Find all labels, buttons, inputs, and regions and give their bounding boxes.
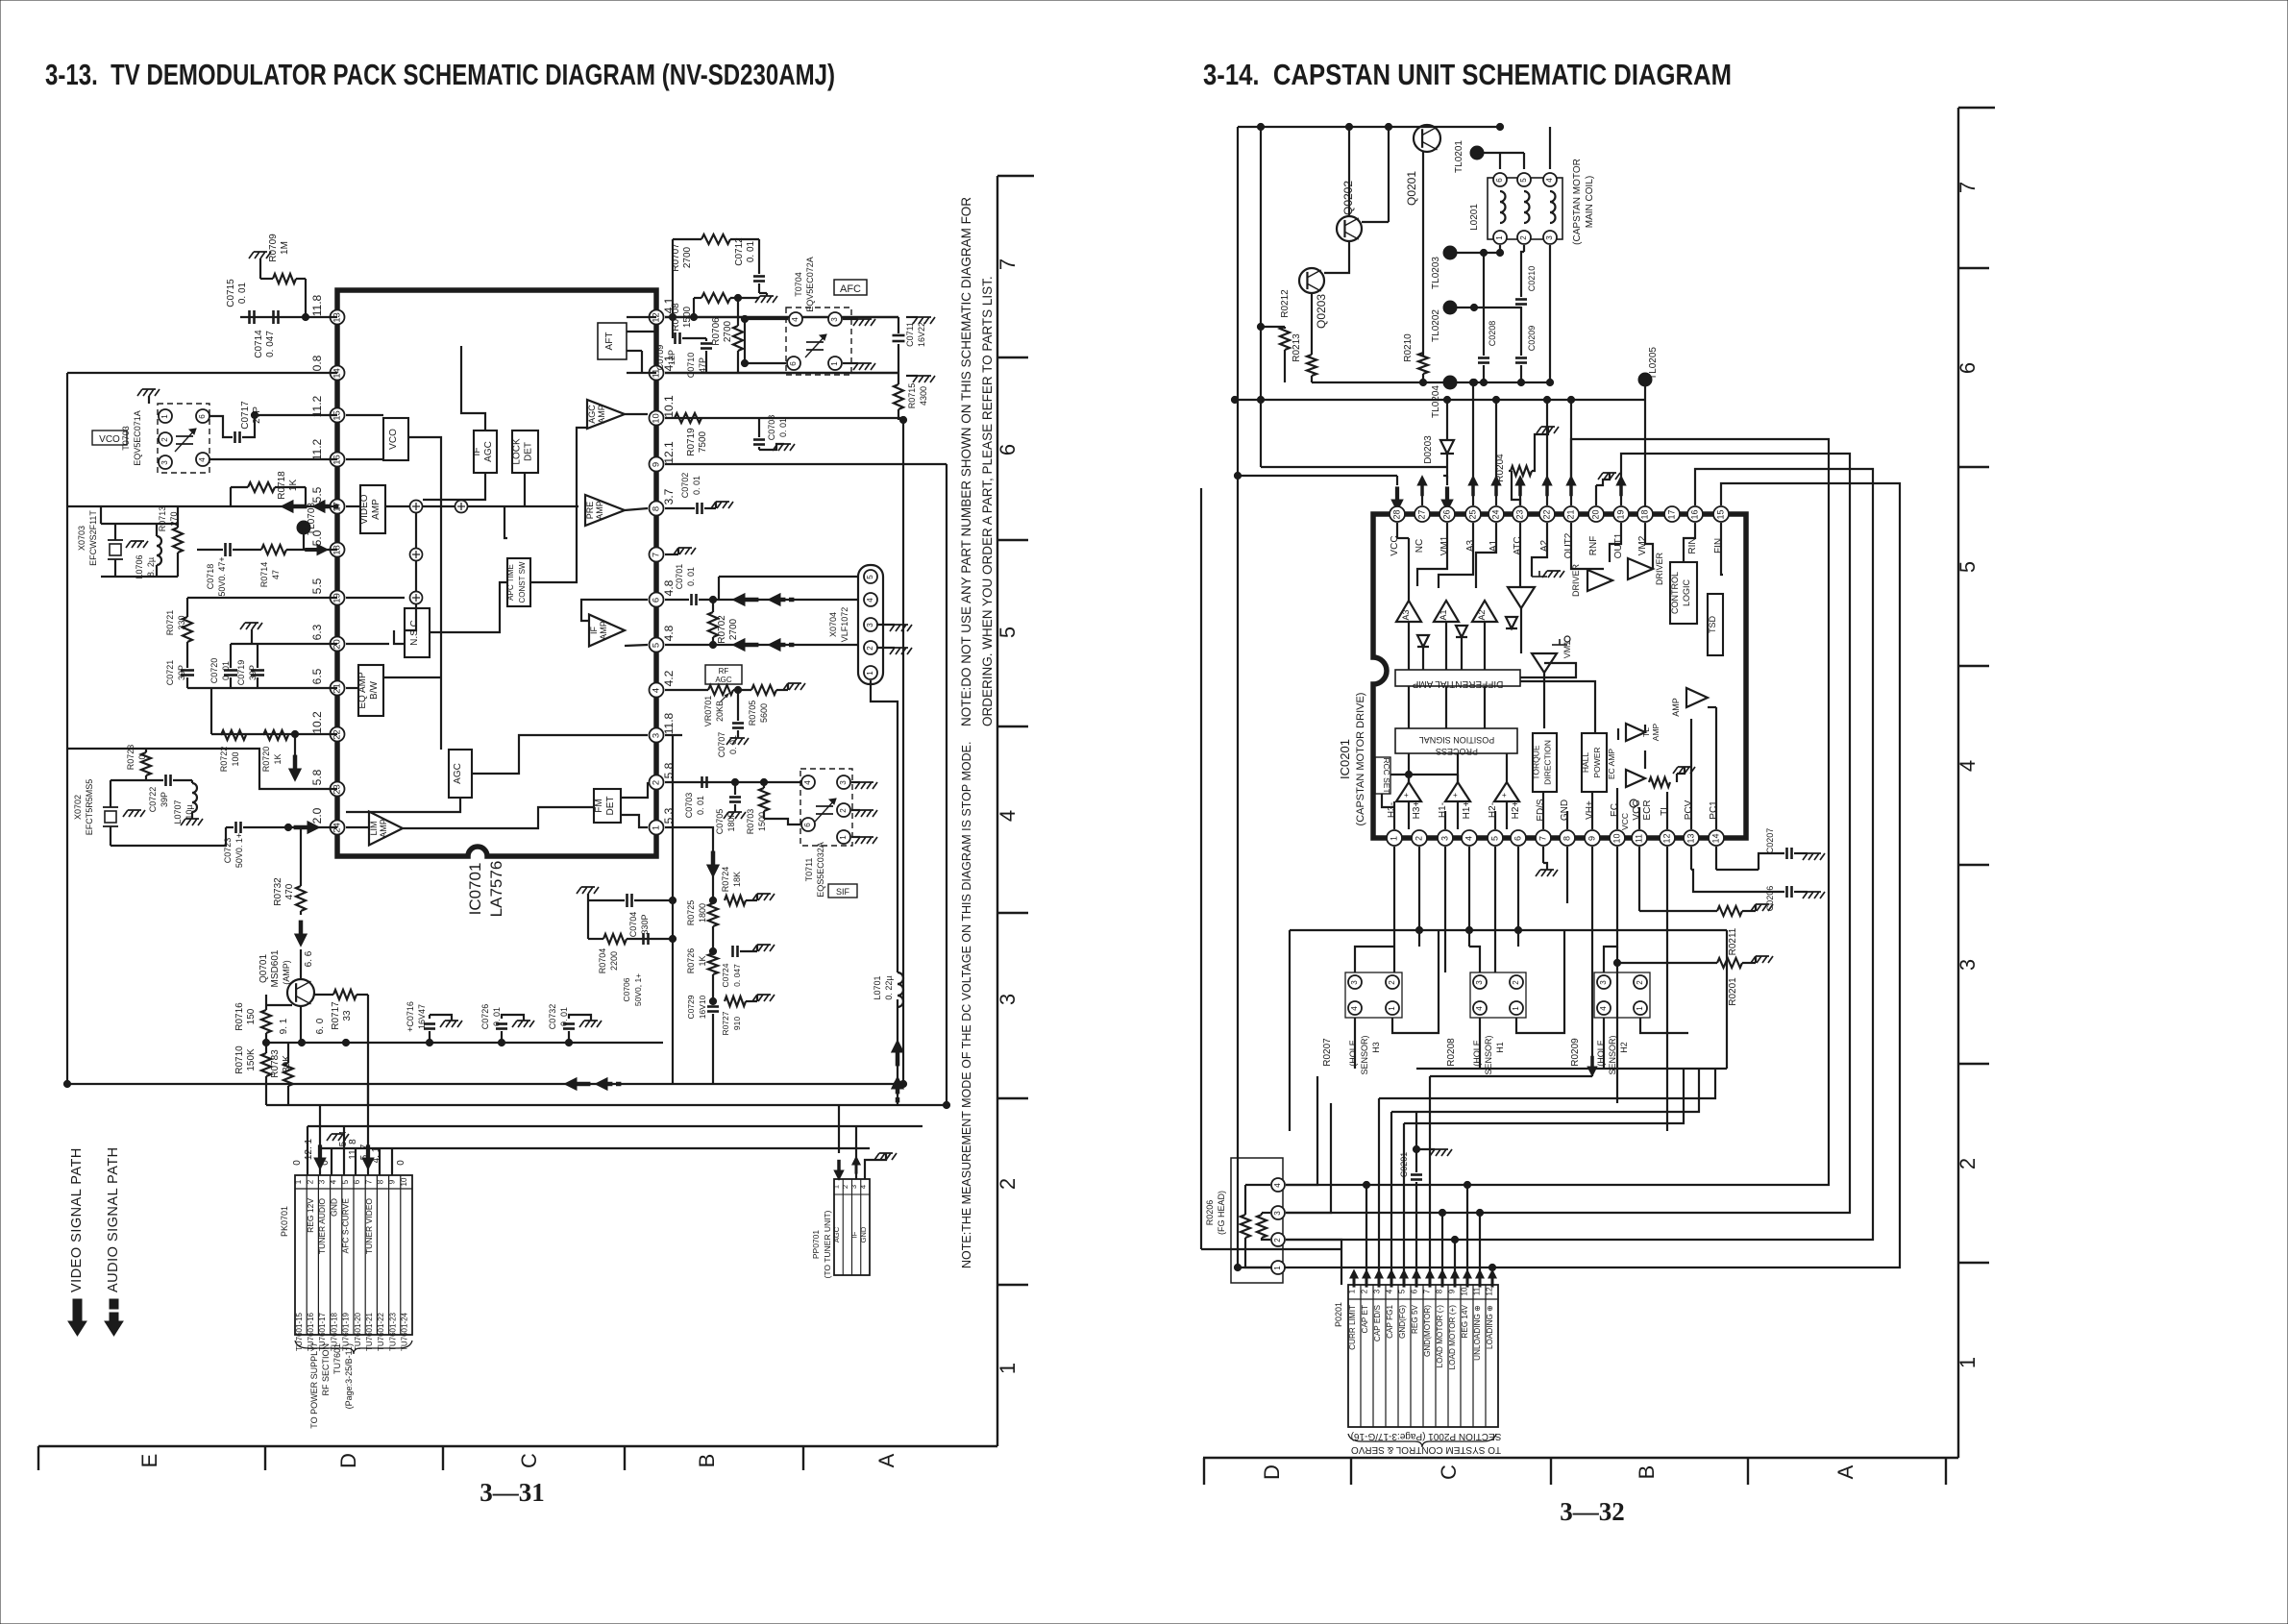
svg-text:4: 4 [1475, 1006, 1484, 1011]
diode internal 1 [1417, 635, 1429, 647]
svg-text:VCO: VCO [99, 434, 120, 445]
diode internal 3 [1506, 617, 1517, 628]
amp PRE AMP [585, 495, 625, 526]
PP0701 wires up [838, 1105, 840, 1153]
svg-text:21: 21 [1565, 509, 1575, 519]
svg-text:2: 2 [160, 437, 169, 442]
arrow into pin18 [317, 544, 328, 554]
resistor R0719 7500 [675, 413, 701, 423]
svg-text:D: D [336, 1453, 360, 1468]
capacitor C0201 [1411, 1173, 1422, 1176]
R0206 wires to right [1286, 1076, 1317, 1185]
svg-text:5: 5 [1489, 836, 1499, 841]
svg-text:+C0716: +C0716 [406, 1001, 415, 1032]
block APC TIME CONST SW [507, 558, 530, 606]
amp AGC AMP [587, 400, 625, 429]
svg-text:RNF: RNF [1588, 536, 1599, 556]
svg-text:4: 4 [803, 780, 812, 785]
svg-text:2: 2 [1512, 980, 1520, 985]
amp IF AMP [589, 615, 625, 647]
ground under L0707 [181, 819, 203, 825]
svg-text:ED/S: ED/S [1536, 799, 1546, 822]
svg-text:2: 2 [652, 780, 662, 785]
amp EC AMP [1626, 770, 1645, 787]
svg-text:DIRECTION: DIRECTION [1543, 740, 1553, 785]
wire pin17 bus [67, 505, 337, 507]
svg-text:R0722: R0722 [219, 747, 229, 773]
svg-text:GND: GND [859, 1226, 868, 1243]
amp A2 internal [1472, 601, 1497, 622]
label SIF boxed [828, 884, 857, 898]
svg-text:R0703: R0703 [746, 809, 755, 835]
svg-text:11.2: 11.2 [310, 395, 324, 417]
X0703 cluster wires [101, 523, 178, 525]
svg-text:4: 4 [996, 810, 1020, 822]
svg-text:7: 7 [364, 1179, 373, 1184]
svg-text:330: 330 [177, 615, 186, 629]
capacitor C0708 0.01 [753, 438, 765, 441]
svg-text:25: 25 [1467, 509, 1477, 519]
svg-text:DRIVER: DRIVER [1655, 553, 1664, 586]
svg-text:R0714: R0714 [259, 562, 269, 588]
svg-text:TL0205: TL0205 [1648, 347, 1659, 380]
svg-text:C0703: C0703 [684, 793, 694, 819]
ground right of X0703 [126, 541, 148, 548]
amp LIM AMP [369, 812, 403, 846]
capacitor C0714 0.047 [272, 310, 275, 324]
svg-text:R0723: R0723 [126, 745, 135, 771]
svg-text:6: 6 [198, 414, 207, 419]
svg-text:1: 1 [652, 825, 662, 830]
svg-text:1: 1 [866, 671, 874, 676]
svg-text:R0208: R0208 [1446, 1038, 1457, 1067]
svg-text:C0705: C0705 [715, 809, 725, 835]
svg-text:R0207: R0207 [1322, 1038, 1333, 1067]
svg-text:2: 2 [841, 1185, 849, 1189]
svg-text:AFC S-CURVE: AFC S-CURVE [341, 1198, 351, 1254]
svg-text:C: C [517, 1453, 541, 1468]
svg-text:REG 5V: REG 5V [1411, 1304, 1419, 1334]
svg-text:AGC: AGC [715, 676, 732, 684]
svg-text:10: 10 [1461, 1287, 1469, 1295]
rail above sensors [1290, 929, 1727, 931]
T0711 pins [801, 775, 815, 789]
T0703 pins [159, 409, 172, 423]
svg-text:C0706: C0706 [622, 977, 631, 1001]
capacitor C0724 0.047 [731, 946, 734, 957]
arrow into connector col2 [314, 1158, 326, 1169]
svg-text:3: 3 [830, 317, 839, 322]
wire pin22 [211, 733, 337, 735]
inductor L0707 10u [192, 783, 197, 812]
svg-text:TORQUE: TORQUE [1532, 745, 1541, 780]
wire pin24 node down [284, 824, 291, 830]
svg-text:28: 28 [1391, 509, 1401, 519]
block EQ AMP BW [358, 665, 383, 716]
block NSC [405, 608, 430, 657]
resistor R0709 1M [273, 274, 296, 283]
svg-text:IC0201: IC0201 [1338, 739, 1352, 779]
wires VCO to pins 15 16 [209, 416, 233, 437]
junction TL0703 [297, 521, 310, 534]
svg-text:C0207: C0207 [1765, 828, 1775, 854]
resistor R0718 1K [248, 482, 275, 492]
PK0701 brace [295, 1341, 412, 1354]
svg-text:LIM: LIM [369, 821, 379, 835]
svg-text:R0726: R0726 [686, 948, 696, 974]
svg-text:1: 1 [1348, 1289, 1357, 1293]
wires pins to top network [1472, 382, 1474, 479]
svg-text:4. 1: 4. 1 [371, 1146, 381, 1163]
svg-text:3: 3 [866, 623, 874, 627]
svg-text:(AMP): (AMP) [282, 960, 291, 985]
resistor R0783 39K [283, 1063, 293, 1086]
svg-text:C0710: C0710 [686, 353, 696, 379]
svg-text:C0720: C0720 [209, 658, 219, 684]
svg-text:6: 6 [803, 823, 812, 827]
wire pin12 right run [665, 316, 898, 319]
svg-text:9: 9 [1587, 836, 1596, 841]
resistor R0703 1500 [759, 788, 769, 811]
svg-text:6.5: 6.5 [310, 668, 324, 684]
svg-text:TL0703: TL0703 [307, 503, 317, 535]
svg-text:VR0701: VR0701 [703, 696, 713, 727]
svg-text:RIN: RIN [1687, 537, 1698, 554]
svg-text:R0706: R0706 [711, 317, 722, 346]
svg-text:R0721: R0721 [165, 610, 175, 636]
svg-text:EFCWS2F11T: EFCWS2F11T [88, 510, 98, 566]
svg-text:VM2: VM2 [1637, 535, 1648, 555]
X0702 wires [111, 779, 163, 781]
svg-text:R0716: R0716 [234, 1002, 245, 1031]
svg-text:CAP ET: CAP ET [1361, 1305, 1369, 1333]
svg-text:8: 8 [377, 1179, 385, 1184]
svg-text:16V22: 16V22 [917, 322, 926, 347]
svg-text:TU7601-20: TU7601-20 [354, 1312, 362, 1351]
svg-text:12.1: 12.1 [662, 441, 676, 464]
svg-text:CONST SW: CONST SW [518, 561, 527, 603]
svg-text:CAP ED/S: CAP ED/S [1373, 1304, 1382, 1341]
label VCO boxed [92, 431, 127, 445]
vertical x700 to bus [672, 735, 674, 1084]
svg-text:4: 4 [1464, 836, 1473, 841]
svg-text:3.7: 3.7 [662, 488, 676, 504]
svg-text:10: 10 [652, 413, 662, 424]
svg-text:6: 6 [1411, 1289, 1419, 1293]
arrow on bus [564, 1078, 577, 1091]
svg-text:TSD: TSD [1708, 615, 1717, 633]
bus junction dots [894, 1080, 900, 1087]
svg-text:2700: 2700 [682, 246, 693, 268]
svg-text:1: 1 [832, 1185, 841, 1189]
svg-text:EC: EC [1610, 803, 1620, 817]
svg-text:0. 01: 0. 01 [778, 418, 788, 437]
svg-text:MAIN COIL): MAIN COIL) [1585, 176, 1595, 228]
svg-text:5. 7: 5. 7 [359, 1144, 370, 1160]
svg-text:OUT2: OUT2 [1563, 532, 1574, 558]
svg-text:SENSOR): SENSOR) [1360, 1035, 1369, 1074]
svg-text:R0717: R0717 [331, 1001, 341, 1030]
grid ruler right (right page) [1957, 108, 1959, 1458]
capacitor C0207 [1785, 848, 1788, 859]
svg-text:H2+: H2+ [1511, 801, 1521, 820]
T0711 varcap [816, 805, 833, 807]
svg-text:C0726: C0726 [480, 1004, 490, 1030]
svg-text:VM1: VM1 [1439, 535, 1450, 555]
svg-text:1K: 1K [273, 753, 283, 764]
svg-text:(CAPSTAN MOTOR DRIVE): (CAPSTAN MOTOR DRIVE) [1355, 693, 1366, 826]
svg-text:TUNER VIDEO: TUNER VIDEO [364, 1198, 374, 1254]
svg-text:2: 2 [839, 808, 848, 813]
svg-text:6: 6 [353, 1179, 361, 1184]
crystal X0703 EFCWS2F11T [108, 539, 123, 541]
arrow down from pin22 node [289, 769, 302, 781]
op-amp IC0701 LA7576 outline [337, 290, 656, 856]
svg-text:(TO TUNER UNIT): (TO TUNER UNIT) [823, 1210, 832, 1278]
svg-text:5: 5 [341, 1179, 350, 1184]
svg-text:H2: H2 [1619, 1042, 1629, 1053]
svg-text:50V0. 47+: 50V0. 47+ [217, 556, 227, 596]
svg-text:0. 01: 0. 01 [692, 476, 701, 495]
X0704 pins [864, 570, 877, 583]
svg-text:39P: 39P [248, 665, 258, 680]
svg-text:VM1: VM1 [1562, 641, 1572, 659]
svg-text:3: 3 [1599, 980, 1608, 985]
svg-text:AMP: AMP [595, 501, 604, 520]
svg-text:2700: 2700 [723, 320, 733, 342]
svg-text:ECR: ECR [1642, 800, 1653, 820]
wire VCC feed [1238, 475, 1397, 477]
wire pin14 long left loop [67, 372, 337, 374]
svg-text:B: B [1635, 1465, 1659, 1480]
mosfet with ground internal [1532, 576, 1547, 578]
svg-text:T0704: T0704 [794, 272, 803, 297]
main rail below Q0701 [266, 1042, 663, 1044]
svg-text:TU7601-23: TU7601-23 [388, 1312, 397, 1351]
svg-text:PC1: PC1 [1709, 800, 1719, 820]
svg-text:TU7601-24: TU7601-24 [401, 1312, 409, 1351]
svg-text:12: 12 [1486, 1287, 1494, 1295]
svg-text:CONTROL: CONTROL [1670, 572, 1680, 614]
svg-text:H3-: H3- [1387, 802, 1397, 818]
svg-text:5: 5 [1519, 178, 1528, 183]
P0201 brace [1348, 1434, 1496, 1447]
svg-text:5.8: 5.8 [310, 769, 324, 785]
svg-text:3: 3 [160, 460, 169, 465]
svg-text:4: 4 [1273, 1183, 1282, 1188]
svg-text:10: 10 [1611, 833, 1621, 843]
svg-text:VCC: VCC [1620, 813, 1630, 830]
svg-text:0: 0 [137, 754, 147, 759]
svg-text:X0702: X0702 [73, 795, 83, 820]
svg-text:4.2: 4.2 [662, 670, 676, 686]
svg-text:GND(MOTOR): GND(MOTOR) [1423, 1305, 1432, 1357]
capacitor C0718 50V0.47 [224, 543, 227, 556]
junction TL0202 [1443, 301, 1457, 314]
svg-text:4: 4 [198, 457, 207, 462]
resistor R0211 [1717, 906, 1742, 916]
connector column risers [1365, 1185, 1367, 1285]
svg-text:ORDERING. WHEN YOU ORDER A PAR: ORDERING. WHEN YOU ORDER A PART, PLEASE … [980, 276, 995, 726]
svg-text:3: 3 [652, 733, 662, 738]
svg-text:A: A [874, 1453, 898, 1467]
svg-text:3: 3 [318, 1179, 327, 1184]
potentiometer VR0701 20KB [708, 685, 733, 695]
svg-text:8: 8 [1436, 1289, 1444, 1293]
svg-text:IC0701: IC0701 [466, 863, 484, 916]
ground above T0703 [137, 389, 160, 396]
svg-text:VIDEO SIGNAL PATH: VIDEO SIGNAL PATH [69, 1147, 85, 1292]
capacitor C0701 0.01 [690, 594, 693, 605]
svg-text:1: 1 [1388, 1006, 1396, 1011]
svg-text:AMP: AMP [1651, 723, 1661, 741]
svg-text:5: 5 [1398, 1289, 1407, 1293]
svg-text:6: 6 [789, 361, 798, 366]
svg-text:C0709: C0709 [655, 345, 665, 371]
svg-text:R0206: R0206 [1205, 1200, 1215, 1226]
capacitor C0721 39P [181, 669, 194, 672]
svg-text:R0719: R0719 [686, 428, 697, 456]
svg-text:150K: 150K [246, 1048, 257, 1071]
svg-text:4: 4 [1350, 1006, 1359, 1011]
arrows on pin6 wire [732, 594, 745, 606]
block CONTROL LOGIC [1670, 562, 1697, 624]
svg-text:VIDEO: VIDEO [359, 494, 370, 524]
svg-text:C0201: C0201 [1399, 1152, 1409, 1178]
vertical drop from R0715 [902, 420, 904, 1084]
block FM DET [594, 789, 621, 823]
capacitor C0206 [1785, 886, 1788, 898]
resistor internal near pin12 [1649, 777, 1670, 787]
capacitor C0716 16V47 [424, 1022, 435, 1025]
IC0701 left pins 13-24 [331, 310, 345, 325]
transistor Q0202 [1337, 216, 1362, 241]
wires to connector PK0701 [307, 1126, 308, 1175]
grid ruler right (left page) [996, 176, 998, 1446]
svg-text:11. 8: 11. 8 [348, 1139, 358, 1160]
svg-text:L0701: L0701 [873, 975, 882, 999]
resistor chain R0725 [708, 903, 718, 926]
svg-text:REG 14V: REG 14V [1461, 1304, 1469, 1338]
ground above pin20 [1598, 473, 1620, 480]
svg-text:LOADING ⊕: LOADING ⊕ [1486, 1305, 1494, 1349]
svg-text:R0209: R0209 [1570, 1038, 1581, 1067]
svg-text:NC: NC [1415, 539, 1425, 553]
svg-text:0. 01: 0. 01 [559, 1007, 569, 1026]
svg-text:6. 0: 6. 0 [315, 1018, 326, 1034]
rail VH+ to col7 [1430, 1075, 1592, 1077]
svg-text:4.8: 4.8 [662, 625, 676, 641]
wire pin13 [240, 316, 337, 318]
capacitor C0719 39P [251, 669, 264, 672]
svg-text:4: 4 [866, 598, 874, 603]
svg-text:8. 2µ: 8. 2µ [146, 557, 156, 577]
svg-text:LOCK: LOCK [512, 438, 523, 465]
svg-text:24: 24 [1490, 509, 1500, 519]
svg-text:FM: FM [594, 799, 604, 812]
svg-text:R0212: R0212 [1280, 289, 1291, 318]
rail below sensors [1416, 1068, 1727, 1070]
svg-text:MSD601: MSD601 [270, 949, 281, 987]
svg-text:6. 6: 6. 6 [304, 950, 314, 967]
svg-text:TL0204: TL0204 [1431, 385, 1441, 418]
capacitor C0709 12P [674, 332, 677, 344]
svg-text:1: 1 [1636, 1006, 1644, 1011]
svg-text:AMP: AMP [599, 621, 608, 640]
svg-text:7: 7 [652, 553, 662, 557]
svg-text:P0201: P0201 [1334, 1302, 1343, 1327]
transistor Q0201 [1414, 125, 1440, 152]
svg-text:EFCT5R5MS5: EFCT5R5MS5 [85, 779, 94, 836]
svg-text:9: 9 [1448, 1289, 1457, 1293]
capacitor C0711 16V22 [893, 334, 905, 337]
ground below pin7 [1542, 847, 1544, 863]
svg-text:R0201: R0201 [1728, 977, 1738, 1006]
svg-text:A2: A2 [1539, 539, 1550, 552]
svg-text:7: 7 [996, 258, 1020, 270]
svg-text:R0210: R0210 [1403, 333, 1414, 362]
resistor R0702 2700 [708, 612, 718, 637]
svg-text:50V0, 1+: 50V0, 1+ [633, 973, 643, 1006]
svg-text:3: 3 [849, 1185, 858, 1189]
svg-text:VLF1072: VLF1072 [840, 607, 849, 643]
IC0201 bottom pins 1-14 [1387, 830, 1402, 846]
crystal X0702 EFCT5R5MS5 [103, 806, 118, 808]
wire X0704 pin1 down [871, 680, 898, 972]
svg-text:C0208: C0208 [1488, 321, 1497, 347]
arrow down pin1 wire [707, 865, 720, 877]
svg-text:R0705: R0705 [748, 701, 757, 726]
svg-text:A2: A2 [1477, 609, 1487, 620]
block TORQUE DIRECTION [1533, 733, 1557, 792]
svg-text:DET: DET [524, 442, 534, 461]
svg-text:(FG HEAD): (FG HEAD) [1217, 1191, 1226, 1235]
svg-text:6: 6 [1513, 836, 1522, 841]
rail to sensor risers 2 [1391, 1069, 1699, 1112]
svg-text:GND: GND [329, 1198, 338, 1217]
svg-text:1K: 1K [698, 955, 707, 966]
amp AMP internal [1686, 688, 1708, 707]
svg-text:0. 047: 0. 047 [265, 331, 276, 357]
ground near R0204 [1537, 427, 1559, 433]
svg-text:NOTE:THE MEASUREMENT MODE OF T: NOTE:THE MEASUREMENT MODE OF THE DC VOLT… [960, 742, 973, 1268]
ground pin7 [665, 554, 678, 555]
dashed box T0711 SIF [800, 769, 852, 846]
wires pins 8-14 down [1566, 847, 1568, 903]
capacitor C0703 0.01 [701, 776, 703, 788]
svg-text:1: 1 [1956, 1357, 1980, 1368]
hall sensor R0209 H2 [1597, 975, 1611, 989]
svg-text:C0717: C0717 [240, 401, 251, 430]
svg-text:+: + [1404, 791, 1409, 800]
svg-text:X0704: X0704 [828, 612, 838, 637]
svg-text:Q0201: Q0201 [1405, 171, 1418, 206]
svg-text:15: 15 [1715, 509, 1725, 519]
svg-text:2: 2 [1519, 235, 1528, 240]
svg-text:5.5: 5.5 [310, 486, 324, 503]
svg-text:6: 6 [996, 444, 1020, 455]
svg-text:X0703: X0703 [77, 526, 86, 551]
svg-text:H3+: H3+ [1412, 801, 1422, 820]
svg-text:TO POWER SUPPLY/: TO POWER SUPPLY/ [309, 1343, 319, 1429]
summing amp 2 [1445, 782, 1470, 801]
svg-text:R0724: R0724 [721, 867, 730, 893]
rail to sensor risers 3 [1404, 1069, 1684, 1123]
svg-text:10.1: 10.1 [662, 395, 676, 418]
svg-text:470: 470 [284, 883, 295, 899]
svg-text:H1: H1 [1495, 1042, 1505, 1053]
svg-text:UNLOADING ⊕: UNLOADING ⊕ [1473, 1305, 1482, 1361]
